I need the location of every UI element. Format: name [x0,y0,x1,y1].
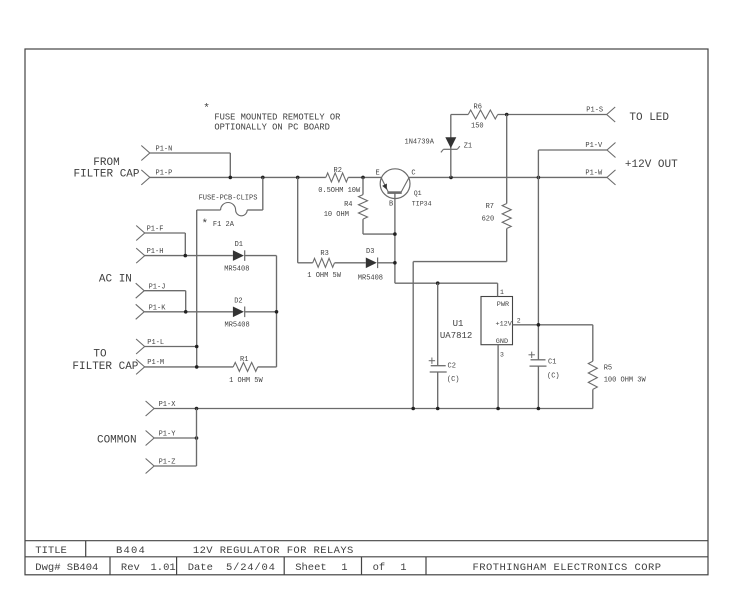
svg-text:R5: R5 [604,364,612,372]
svg-text:P1-W: P1-W [585,170,603,178]
svg-text:E: E [376,170,380,178]
svg-text:FILTER CAP: FILTER CAP [72,361,138,373]
svg-text:MR5408: MR5408 [224,265,249,273]
svg-text:P1-H: P1-H [147,248,164,256]
svg-text:P1-F: P1-F [147,225,164,233]
svg-text:COMMON: COMMON [97,434,137,446]
svg-text:R4: R4 [344,201,352,209]
svg-text:P1-P: P1-P [156,170,173,178]
svg-text:1: 1 [341,562,347,574]
svg-text:PWR: PWR [497,301,509,309]
svg-text:FILTER CAP: FILTER CAP [73,168,139,180]
svg-text:Z1: Z1 [464,143,472,151]
svg-text:C: C [411,170,415,178]
svg-text:P1-V: P1-V [585,142,603,150]
svg-text:TITLE: TITLE [35,545,67,557]
svg-text:100 OHM 3W: 100 OHM 3W [604,377,647,385]
svg-text:10 OHM: 10 OHM [324,211,349,219]
svg-text:1: 1 [400,562,406,574]
svg-text:P1-S: P1-S [586,107,603,115]
svg-text:R3: R3 [320,250,328,258]
svg-text:R6: R6 [474,104,482,112]
svg-text:GND: GND [496,338,508,346]
svg-text:F1 2A: F1 2A [213,221,235,229]
svg-text:P1-K: P1-K [149,304,167,312]
svg-text:Date: Date [188,562,213,574]
svg-text:+12V OUT: +12V OUT [625,159,678,171]
svg-text:2: 2 [517,318,521,325]
svg-text:1: 1 [500,289,504,296]
svg-text:1.01: 1.01 [151,562,176,574]
svg-text:FROTHINGHAM ELECTRONICS CORP: FROTHINGHAM ELECTRONICS CORP [472,562,661,574]
svg-text:OPTIONALLY ON PC BOARD: OPTIONALLY ON PC BOARD [214,123,330,133]
svg-text:D2: D2 [234,297,242,305]
svg-text:P1-L: P1-L [147,339,164,347]
svg-text:P1-Y: P1-Y [159,430,177,438]
svg-text:AC IN: AC IN [99,274,132,286]
svg-text:P1-J: P1-J [149,283,166,291]
svg-text:P1-M: P1-M [147,359,164,367]
svg-text:P1-X: P1-X [159,401,177,409]
svg-text:3: 3 [500,352,504,359]
svg-text:(C): (C) [547,373,560,381]
svg-text:FUSE MOUNTED REMOTELY OR: FUSE MOUNTED REMOTELY OR [214,113,341,123]
svg-text:P1-Z: P1-Z [159,458,176,466]
svg-text:(C): (C) [447,376,460,384]
svg-text:B: B [389,200,393,208]
svg-text:12V REGULATOR FOR RELAYS: 12V REGULATOR FOR RELAYS [193,545,354,557]
svg-text:MR5408: MR5408 [358,274,383,282]
svg-text:P1-N: P1-N [156,145,173,153]
svg-text:UA7812: UA7812 [440,331,472,341]
svg-text:TO LED: TO LED [629,112,669,124]
svg-text:Rev: Rev [121,562,140,574]
svg-text:1 OHM 5W: 1 OHM 5W [229,377,263,385]
svg-text:1N4739A: 1N4739A [405,139,435,147]
svg-text:R7: R7 [486,203,494,211]
svg-text:1 OHM 5W: 1 OHM 5W [307,272,341,280]
svg-text:150: 150 [471,123,484,131]
svg-text:Sheet: Sheet [295,562,327,574]
svg-text:TO: TO [93,348,107,360]
svg-text:Q1: Q1 [414,190,422,197]
svg-text:U1: U1 [453,319,464,329]
svg-text:*: * [202,219,209,231]
svg-text:620: 620 [482,216,495,224]
svg-text:C2: C2 [448,363,456,371]
svg-text:+12V: +12V [496,320,513,328]
svg-text:0.5OHM 10W: 0.5OHM 10W [318,187,361,195]
svg-text:FUSE-PCB-CLIPS: FUSE-PCB-CLIPS [199,194,258,202]
svg-text:B404: B404 [116,545,146,557]
svg-text:D1: D1 [235,241,243,249]
svg-text:of: of [373,562,386,574]
svg-text:R2: R2 [334,167,342,175]
svg-text:R1: R1 [240,356,248,364]
svg-text:*: * [203,103,210,115]
svg-text:D3: D3 [366,248,374,256]
svg-text:Dwg# SB404: Dwg# SB404 [35,562,98,574]
svg-text:5/24/04: 5/24/04 [226,562,276,574]
svg-text:C1: C1 [548,359,556,367]
svg-text:TIP34: TIP34 [412,200,432,207]
svg-text:MR5408: MR5408 [225,322,250,330]
svg-text:FROM: FROM [93,157,119,169]
